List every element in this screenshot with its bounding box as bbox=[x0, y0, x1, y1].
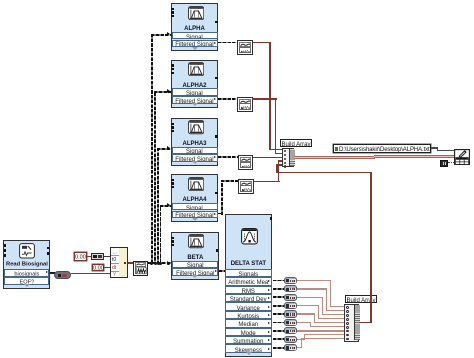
Standard Dev wire bbox=[297, 297, 323, 298]
Arithmetic Mean bbox=[273, 280, 284, 282]
wire: ALPHA2 array to Build Array in2 bbox=[252, 98, 276, 100]
wire: BETA filtered to DELTA STAT Signals bbox=[219, 270, 225, 272]
Build Array node bbox=[282, 148, 295, 168]
ALPHA2 filter bbox=[171, 60, 218, 108]
dynamic wire riser to ALPHA3 bbox=[157, 148, 159, 263]
input arrows at filters bbox=[167, 32, 170, 36]
Arithmetic Mean wire bbox=[297, 280, 331, 281]
file path constant bbox=[333, 144, 431, 153]
wire: ALPHA3 filtered out bbox=[218, 156, 238, 158]
Kurtosis wire bbox=[297, 313, 315, 314]
Convert from Dynamic Data (ALPHA4) bbox=[238, 179, 254, 194]
Median wire bbox=[297, 322, 311, 323]
wire: 0.00 to dt bbox=[104, 267, 110, 268]
Variance wire bbox=[297, 305, 319, 306]
boolean constant bbox=[440, 160, 447, 167]
biosignal channel conversion capsule bbox=[54, 271, 71, 279]
Build Array label bbox=[280, 139, 312, 147]
dynamic wire riser to ALPHA bbox=[151, 34, 153, 264]
svg-text:#(s): #(s) bbox=[243, 164, 251, 168]
svg-text:#(s): #(s) bbox=[242, 106, 250, 110]
dynamic wire riser to ALPHA4 bbox=[160, 205, 162, 264]
Convert from Dynamic Data (ALPHA2) bbox=[237, 97, 253, 112]
2D array wire to Write To Spreadsheet File bbox=[294, 156, 375, 159]
ALPHA filter bbox=[171, 3, 218, 51]
wire: ALPHA4 array to Build Array in4 bbox=[254, 181, 280, 183]
Skewness wire bbox=[297, 347, 302, 348]
Build Waveform node bbox=[110, 247, 127, 278]
main dynamic data wire to BETA bbox=[148, 262, 171, 264]
wire: ALPHA filtered out bbox=[218, 42, 237, 44]
svg-text:#(s): #(s) bbox=[244, 188, 252, 192]
Write To Spreadsheet File icon bbox=[454, 149, 470, 166]
Convert from Dynamic Data (ALPHA3) bbox=[238, 155, 254, 170]
dynamic wire riser to ALPHA2 bbox=[154, 91, 156, 263]
RMS bbox=[273, 288, 284, 290]
wire: biosignal waveform to Build Waveform Y bbox=[71, 273, 110, 275]
ALPHA3 filter bbox=[171, 118, 218, 166]
svg-text:#(s): #(s) bbox=[243, 49, 251, 53]
wire: converter to t0 bbox=[104, 256, 110, 257]
wire: ALPHA2 filtered out bbox=[218, 98, 237, 100]
wire: ALPHA array to Build Array in1 bbox=[253, 42, 271, 44]
wire: ALPHA3 array to Build Array in3 bbox=[253, 157, 282, 159]
Median bbox=[273, 322, 284, 324]
ALPHA4 filter bbox=[171, 174, 218, 222]
Summation wire bbox=[297, 339, 305, 340]
To Time Stamp converter bbox=[91, 253, 104, 260]
Convert to Dynamic Data bbox=[133, 261, 148, 276]
Mode bbox=[273, 330, 284, 332]
junction dots bbox=[150, 262, 153, 265]
Standard Dev bbox=[273, 296, 284, 298]
numeric constant 0.00 (t0) bbox=[74, 252, 86, 260]
Read Biosignal express VI bbox=[3, 240, 50, 289]
boolean dotted wire bbox=[448, 162, 454, 163]
wire: ALPHA4 filtered out riser bbox=[218, 213, 223, 215]
Convert from Dynamic Data (ALPHA) bbox=[237, 40, 253, 55]
Build Array node bbox=[344, 304, 359, 342]
Variance bbox=[273, 305, 284, 307]
wire: 0.00 to converter bbox=[87, 256, 91, 258]
wire: stats array up to top Build Array bbox=[359, 322, 372, 324]
BETA filter bbox=[171, 232, 219, 280]
Mode wire bbox=[297, 330, 344, 331]
Kurtosis bbox=[273, 313, 284, 315]
numeric constant 0.00 (dt) bbox=[92, 264, 104, 272]
Skewness bbox=[273, 347, 284, 349]
Build Array label bbox=[345, 295, 377, 303]
Summation bbox=[273, 338, 284, 340]
wire: biosignals stub bbox=[50, 272, 55, 274]
wire: Build Waveform out bbox=[128, 262, 134, 264]
path wire bbox=[431, 147, 438, 149]
RMS wire bbox=[297, 288, 327, 289]
